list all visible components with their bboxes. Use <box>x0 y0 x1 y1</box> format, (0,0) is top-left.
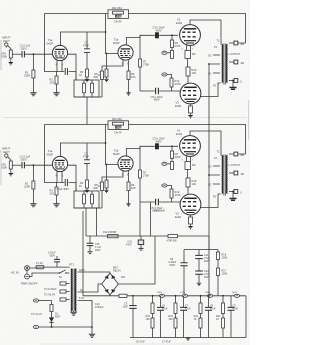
secondary tap 0 <box>229 80 234 82</box>
left dropper cap C5 <box>132 296 134 338</box>
screen tap stubs <box>213 55 220 73</box>
ground return rail <box>83 295 246 297</box>
svg-text:250K: 250K <box>1 55 7 59</box>
AC plug connector <box>25 266 30 279</box>
smoothing cap C9 <box>183 250 185 296</box>
svg-text:EL84: EL84 <box>175 104 182 108</box>
wire grid leak resistor branch <box>32 54 34 70</box>
main B+ wire <box>86 235 209 237</box>
svg-text:630V: 630V <box>170 264 176 267</box>
secondary tap 0V to bridge <box>78 284 102 292</box>
grid stopper network V1 <box>171 35 173 40</box>
tube V2 power pentode <box>180 83 201 104</box>
svg-text:275V: 275V <box>180 292 186 294</box>
node rail junction B+ <box>208 295 210 297</box>
wire R5 to bias bus <box>101 80 103 98</box>
wire wiper to coupling cap <box>12 53 21 55</box>
svg-text:470R 5W: 470R 5W <box>167 239 178 242</box>
svg-text:820: 820 <box>94 75 99 79</box>
dropper chain 2 <box>169 296 191 338</box>
svg-text:10K: 10K <box>169 318 174 321</box>
resistor R4 <box>105 69 108 77</box>
capacitor C3 <box>84 49 90 53</box>
svg-text:C7 47uF: C7 47uF <box>162 342 171 344</box>
resistor R14 heater bias <box>51 301 53 305</box>
wire feedback vertical to cathode <box>45 14 57 72</box>
node plate rail junction <box>105 31 107 33</box>
right edge return <box>245 296 247 338</box>
node rail junction 3 <box>200 295 202 297</box>
svg-text:100K: 100K <box>222 273 228 276</box>
series resistor R14 150/5W <box>108 235 119 238</box>
svg-text:265V: 265V <box>205 292 211 294</box>
wire V2 plate to transformer <box>200 83 220 97</box>
secondary tap 8 ohm <box>229 42 246 44</box>
svg-text:47uF: 47uF <box>83 44 89 48</box>
tube T1a triode <box>52 45 67 60</box>
svg-text:4700uF: 4700uF <box>95 306 104 309</box>
svg-text:PWR ON/OFF: PWR ON/OFF <box>21 282 38 286</box>
reservoir cap C15 under wire <box>89 236 91 251</box>
svg-text:V2: V2 <box>176 101 180 105</box>
wire T1b plate up <box>127 35 141 45</box>
svg-text:KBL04: KBL04 <box>113 270 121 273</box>
wire NFB rail left segment <box>45 13 109 15</box>
wire T1a second grid to bias box <box>68 54 76 80</box>
resistor R10 screen <box>187 59 189 68</box>
node secondary common junction <box>232 80 234 82</box>
resistor R13 680R in NFB <box>113 11 124 14</box>
svg-text:SG: SG <box>208 55 212 58</box>
node switch contact A <box>59 272 61 274</box>
tube V1 power pentode <box>180 25 201 46</box>
wire coupling top to V1 <box>140 35 178 37</box>
node heater return junction <box>91 326 93 328</box>
svg-text:6N2P: 6N2P <box>47 41 54 45</box>
B+ center tap rail <box>209 64 220 176</box>
ground bus <box>130 337 246 339</box>
bleeder resistors <box>217 250 219 296</box>
svg-text:C6 47uF: C6 47uF <box>136 342 145 344</box>
svg-text:100: 100 <box>192 71 197 75</box>
ground below R6 <box>126 93 130 95</box>
svg-text:1K: 1K <box>194 318 197 321</box>
svg-text:250V: 250V <box>232 292 238 294</box>
svg-text:SG: SG <box>208 73 212 76</box>
wire NFB junction down to plate rail <box>105 14 107 33</box>
wire to ground <box>32 78 34 93</box>
svg-text:1K: 1K <box>216 318 219 321</box>
hum resistor on rail <box>119 294 127 297</box>
wire R3 to ground <box>86 77 88 79</box>
svg-text:TO V3,V4: TO V3,V4 <box>44 293 56 296</box>
node rail junction left <box>132 295 134 297</box>
ground below R2 <box>53 93 59 96</box>
ground below VR1 <box>9 63 13 65</box>
capacitor C2 bypass <box>65 68 67 75</box>
node input grid junction <box>33 53 35 55</box>
input jack J1 <box>5 43 11 49</box>
resistor R6 tail <box>127 71 130 80</box>
resistor Ra inside bias box <box>83 83 86 93</box>
svg-text:TO V1,V2: TO V1,V2 <box>31 313 43 316</box>
svg-text:450V: 450V <box>95 249 101 252</box>
filter header wire <box>184 249 218 251</box>
svg-text:C14 0.68uF: C14 0.68uF <box>152 210 166 213</box>
svg-text:4007: 4007 <box>55 316 61 319</box>
svg-text:10uF: 10uF <box>123 305 129 308</box>
wire T1b cathode legs <box>102 60 129 71</box>
node rail junction 1 <box>152 295 154 297</box>
node T1b grid junction <box>106 53 108 55</box>
resistor Rb inside bias box <box>91 83 94 93</box>
wire T1a cathode legs <box>57 60 62 71</box>
svg-text:10K: 10K <box>131 75 136 79</box>
left taps of PT1 with small filter boxes <box>66 284 70 300</box>
svg-text:8Ω: 8Ω <box>241 42 245 46</box>
wire cathode resistor to ground <box>56 72 58 93</box>
wire NFB rail right segment to output terminal <box>129 14 246 44</box>
B+ rail down to filter header <box>208 287 210 296</box>
X-cap 0.22uF 630V across line <box>56 256 58 267</box>
grid network V2 <box>167 75 171 92</box>
ground below R3 <box>85 79 89 81</box>
svg-text:400V: 400V <box>154 98 160 102</box>
wire R4 to ground <box>106 77 108 79</box>
wire lower coupling to V2 <box>140 90 180 92</box>
decoupling branch with C3 <box>86 32 88 69</box>
svg-text:400V: 400V <box>156 28 162 32</box>
resistor R15 470/5W on B+ <box>168 235 178 238</box>
electrolytic cap C16 <box>140 236 142 240</box>
svg-text:R14 150/5W: R14 150/5W <box>103 231 117 234</box>
capacitor C5 0.15uF to V2 grid <box>156 88 159 94</box>
capacitor C1 0.1uF coupling <box>22 51 24 57</box>
grid resistor branch T1b <box>106 54 108 70</box>
wire V1 cathode <box>187 45 191 50</box>
heater run from channel 2 <box>82 211 84 296</box>
NFB network box R+C parallel <box>108 10 129 19</box>
node rail junction 2 <box>175 295 177 297</box>
svg-text:10K: 10K <box>146 318 151 321</box>
wire jack to volume pot <box>10 49 12 50</box>
svg-text:285V: 285V <box>157 292 163 294</box>
svg-text:400V: 400V <box>204 276 210 279</box>
svg-text:47uF: 47uF <box>210 307 216 310</box>
svg-text:47uF: 47uF <box>233 307 239 310</box>
tube T1b triode <box>118 45 133 60</box>
node V1 grid junction <box>171 34 173 36</box>
diode D1 <box>51 312 53 318</box>
svg-text:35A: 35A <box>121 276 126 279</box>
connector ch2 bias box down to PSU wire <box>85 208 87 236</box>
fuse F1 2A <box>36 265 44 268</box>
svg-text:270K: 270K <box>143 63 149 67</box>
ground below R1 <box>30 93 36 96</box>
svg-text:630V: 630V <box>50 254 56 257</box>
ground below R4 <box>104 79 108 81</box>
resistor R3 <box>86 69 89 77</box>
svg-text:220K: 220K <box>24 74 30 78</box>
wire bias box internal leads <box>84 80 92 97</box>
filter caps C11 C12 stack <box>198 250 200 283</box>
svg-text:R9: R9 <box>192 52 196 56</box>
ground below PT1 <box>73 311 75 312</box>
wire R7 down to lower coupling <box>139 67 141 91</box>
bias network box <box>74 80 99 97</box>
wire pot to ground <box>10 58 12 63</box>
divider resistor R7 <box>139 38 141 60</box>
svg-text:L OUTPUT: L OUTPUT <box>229 53 241 56</box>
ground of secondary <box>232 81 234 88</box>
svg-text:C4n7F: C4n7F <box>114 20 122 24</box>
secondary tap 4 ohm <box>229 61 234 63</box>
svg-text:47uF: 47uF <box>185 307 191 310</box>
svg-text:F1 2A: F1 2A <box>36 262 43 265</box>
svg-text:6N2P: 6N2P <box>113 41 120 45</box>
capacitor C5 4n7 in NFB <box>115 15 122 18</box>
connector from ch1 bias box down to ch2 NFB <box>86 97 88 125</box>
secondary tap 340V to bridge <box>78 272 111 273</box>
scan specks <box>0 40 2 70</box>
svg-text:340V: 340V <box>79 269 85 272</box>
svg-text:LEFT: LEFT <box>3 39 10 43</box>
capacitor C4 0.15uF to V1 grid <box>155 32 159 38</box>
verticals from channel 2 down to supply <box>140 202 151 236</box>
resistor R1 220K grid leak <box>32 70 35 78</box>
svg-text:4Ω: 4Ω <box>241 61 245 65</box>
svg-text:47uF: 47uF <box>162 307 168 310</box>
resistor R2 cathode 2K2 <box>55 76 58 84</box>
wire fuse to transformer <box>44 266 70 268</box>
scan noise <box>0 0 1 1</box>
svg-text:250V: 250V <box>21 46 27 50</box>
wire R6 to ground <box>128 80 130 93</box>
dropper chain 4 <box>216 296 238 338</box>
svg-text:TO 6.3VAC: TO 6.3VAC <box>44 288 57 291</box>
svg-text:1K: 1K <box>79 73 82 77</box>
svg-text:400V: 400V <box>204 260 210 263</box>
wire V1 plate to transformer <box>190 20 221 45</box>
svg-text:2K2: 2K2 <box>50 81 55 85</box>
wire bridge - to rail <box>109 295 111 296</box>
svg-text:6.3V: 6.3V <box>79 297 84 300</box>
svg-text:R11 8K2: R11 8K2 <box>112 6 122 10</box>
wire bridge + output <box>118 236 155 284</box>
svg-text:T1b: T1b <box>114 38 119 42</box>
dropper chain 3 <box>194 296 216 338</box>
node heater bias junction <box>51 326 53 328</box>
oval connector heater A <box>33 299 38 302</box>
svg-text:PT1: PT1 <box>69 263 75 267</box>
svg-text:AC IN: AC IN <box>11 271 19 275</box>
svg-text:470K: 470K <box>175 82 181 86</box>
svg-text:470K: 470K <box>175 44 181 48</box>
svg-text:T1a: T1a <box>48 38 53 42</box>
svg-text:EL84: EL84 <box>176 21 183 25</box>
wire plug to fuse <box>29 268 59 277</box>
oval bias connector <box>162 51 167 54</box>
dropper chain 1 <box>146 296 168 338</box>
oval connector heater B <box>33 325 38 328</box>
resistor R9 cathode <box>185 51 191 59</box>
svg-text:V1: V1 <box>177 18 181 22</box>
svg-text:47uF: 47uF <box>126 244 132 247</box>
svg-text:100K: 100K <box>222 257 228 260</box>
B+ distribution ovals <box>159 294 164 297</box>
resistor R5 <box>101 71 104 80</box>
bridge rectifier BR1 <box>102 273 119 295</box>
wire cap to grid <box>24 53 52 55</box>
wire cathode node to bypass cap <box>57 72 77 81</box>
wire bus <box>74 96 102 98</box>
node B+ tap junction <box>208 63 210 65</box>
faint scan fold line <box>3 116 247 118</box>
output transformer T1 <box>222 44 228 85</box>
heater winding tap 6.3V <box>78 301 93 335</box>
node switch contact B <box>65 272 67 274</box>
potentiometer VR1 250K <box>9 50 12 58</box>
wire T1a plate to T1b grid <box>61 32 118 54</box>
wire V2 cathode to ground <box>190 104 192 116</box>
node rail junction 4 <box>222 295 224 297</box>
svg-text:0.1uF 400V: 0.1uF 400V <box>57 188 70 191</box>
